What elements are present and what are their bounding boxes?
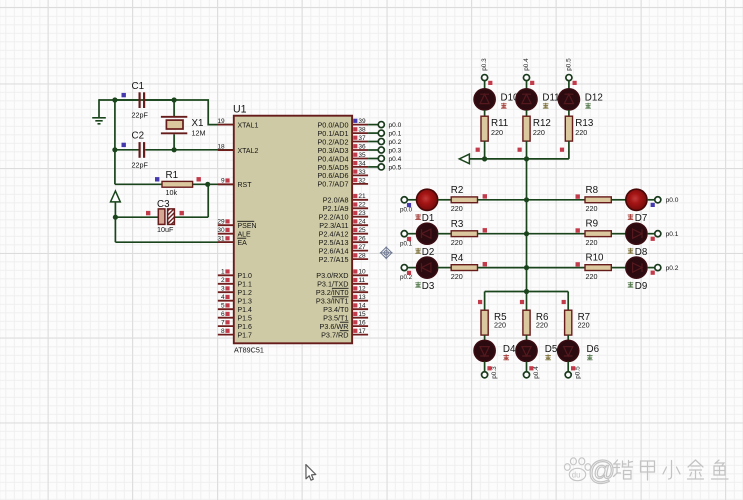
svg-text:5: 5 bbox=[221, 303, 225, 310]
marker terminal D2 bbox=[407, 237, 411, 241]
marker C1 (blue) bbox=[122, 93, 126, 97]
wire bottom distribution bbox=[485, 291, 569, 293]
svg-text:p0.3: p0.3 bbox=[389, 147, 402, 154]
svg-text:@: @ bbox=[588, 456, 615, 486]
svg-text:18: 18 bbox=[217, 144, 225, 151]
terminal p0.2 at U1 bbox=[368, 138, 402, 145]
terminal p0.0 left bbox=[400, 197, 413, 214]
pin 25 P2.4/A12 bbox=[319, 227, 368, 238]
svg-text:p0.3: p0.3 bbox=[481, 58, 488, 71]
wire D7 to terminal bbox=[647, 199, 655, 201]
terminal p0.5 top bbox=[565, 58, 572, 81]
svg-text:37: 37 bbox=[358, 135, 366, 142]
marker terminal D4 bbox=[487, 366, 491, 370]
resistor R2 bbox=[451, 185, 478, 213]
wire terminal to D2 bbox=[407, 233, 416, 235]
terminal p0.0 at U1 bbox=[368, 122, 402, 129]
wire central bus vertical bbox=[526, 159, 528, 292]
pin 12 P3.2/INT0 bbox=[316, 286, 368, 297]
svg-text:32: 32 bbox=[358, 177, 366, 184]
wire R6 to D5 bbox=[526, 335, 528, 340]
pin 7 P1.6 bbox=[218, 320, 252, 331]
resistor R3 bbox=[451, 219, 478, 247]
svg-text:10k: 10k bbox=[166, 188, 178, 197]
ground bbox=[92, 99, 106, 124]
svg-text:D6: D6 bbox=[587, 344, 600, 355]
wire gnd top rail to XTAL1 bbox=[99, 100, 234, 125]
pin 14 P3.4/T0 bbox=[323, 303, 368, 314]
svg-text:P1.4: P1.4 bbox=[238, 307, 253, 314]
pin 3 P1.2 bbox=[218, 286, 252, 297]
svg-text:14: 14 bbox=[358, 303, 366, 310]
marker R2 bbox=[483, 194, 487, 198]
marker R5 bbox=[478, 300, 482, 304]
svg-text:p0.4: p0.4 bbox=[389, 156, 402, 163]
svg-text:27: 27 bbox=[358, 244, 366, 251]
svg-text:P1.0: P1.0 bbox=[238, 273, 253, 280]
resistor R13 bbox=[565, 116, 594, 141]
svg-text:P1.7: P1.7 bbox=[238, 332, 253, 339]
terminal p0.5 bottom bbox=[565, 366, 581, 379]
svg-text:D9: D9 bbox=[635, 281, 648, 292]
pin 16 P3.6/WR bbox=[319, 320, 368, 331]
svg-text:2: 2 bbox=[221, 277, 225, 284]
svg-text:10: 10 bbox=[358, 269, 366, 276]
marker R8 bbox=[576, 194, 580, 198]
svg-text:p0.1: p0.1 bbox=[389, 131, 402, 138]
terminal p0.4 top bbox=[523, 58, 530, 81]
marker R13 bbox=[560, 148, 564, 152]
LED D12 bbox=[558, 89, 602, 110]
pin 24 P2.3/A11 bbox=[319, 219, 368, 230]
terminal p0.4 at U1 bbox=[368, 155, 402, 162]
resistor R10 bbox=[585, 253, 611, 281]
node bus junction row 1 bbox=[524, 197, 529, 202]
node junction C3 left bbox=[113, 215, 118, 220]
svg-text:24: 24 bbox=[358, 219, 366, 226]
svg-text:C1: C1 bbox=[132, 81, 145, 92]
pin 10 P3.0/RXD bbox=[316, 269, 368, 280]
svg-text:AT89C51: AT89C51 bbox=[234, 345, 264, 354]
svg-text:D3: D3 bbox=[422, 281, 435, 292]
wire C3 to RST junction bbox=[207, 184, 209, 217]
pin 32 P0.7/AD7 bbox=[317, 177, 368, 188]
resistor R6 bbox=[523, 310, 549, 335]
svg-text:p0.5: p0.5 bbox=[575, 366, 582, 379]
svg-text:25: 25 bbox=[358, 227, 366, 234]
wire terminal to D12 bbox=[568, 81, 570, 89]
wire bus to R9 bbox=[527, 233, 586, 235]
svg-text:12: 12 bbox=[358, 286, 366, 293]
pin 22 P2.1/A9 bbox=[323, 202, 368, 213]
terminal p0.3 bottom bbox=[482, 366, 498, 379]
pin 17 P3.7/RD bbox=[321, 328, 368, 339]
terminal p0.2 left bbox=[400, 265, 413, 282]
wire R9 to D8 bbox=[611, 233, 625, 235]
capacitor C2 bbox=[115, 131, 174, 170]
node junction C2 right / X1 bottom bbox=[172, 147, 177, 152]
pin 34 P0.5/AD5 bbox=[317, 160, 368, 172]
LED D11 bbox=[516, 89, 560, 110]
svg-text:D4: D4 bbox=[503, 344, 516, 355]
terminal p0.1 right bbox=[655, 231, 679, 238]
svg-text:15: 15 bbox=[358, 311, 366, 318]
svg-text:13: 13 bbox=[358, 294, 366, 301]
svg-text:R1: R1 bbox=[166, 170, 179, 181]
svg-text:R2: R2 bbox=[451, 185, 464, 196]
terminal p0.3 top bbox=[481, 58, 488, 81]
svg-text:D11: D11 bbox=[542, 92, 559, 103]
svg-text:26: 26 bbox=[358, 236, 366, 243]
svg-text:29: 29 bbox=[217, 219, 225, 226]
wire D8 to terminal bbox=[647, 233, 655, 235]
wire R8 to D7 bbox=[611, 199, 625, 201]
marker R1 right bbox=[197, 177, 201, 181]
svg-text:4: 4 bbox=[221, 294, 225, 301]
svg-text:35: 35 bbox=[358, 152, 366, 159]
svg-text:C2: C2 bbox=[132, 131, 145, 142]
svg-text:23: 23 bbox=[358, 210, 366, 217]
svg-text:220: 220 bbox=[586, 272, 598, 281]
marker terminal D11 bbox=[530, 81, 534, 85]
svg-text:22pF: 22pF bbox=[132, 111, 149, 120]
svg-text:P1.6: P1.6 bbox=[238, 324, 253, 331]
wire R3 to bus bbox=[478, 233, 527, 235]
wire bus to R10 bbox=[527, 267, 586, 269]
pin 31 EA bbox=[217, 236, 247, 247]
wire bus to R8 bbox=[527, 199, 586, 201]
capacitor C1 bbox=[115, 81, 174, 120]
svg-text:p0.2: p0.2 bbox=[666, 265, 679, 272]
wire terminal to D1 bbox=[407, 199, 416, 201]
pin 4 P1.3 bbox=[218, 294, 252, 305]
svg-text:220: 220 bbox=[586, 204, 598, 213]
svg-text:P3.7/RD: P3.7/RD bbox=[321, 330, 348, 339]
marker R6 bbox=[520, 300, 524, 304]
marker terminal D1 (blue) bbox=[407, 203, 411, 207]
marker R4 bbox=[483, 262, 487, 266]
marker terminal D10 bbox=[488, 81, 492, 85]
wire terminal to D3 bbox=[407, 267, 416, 269]
pin 38 P0.1/AD1 bbox=[317, 127, 368, 138]
svg-text:D12: D12 bbox=[585, 92, 603, 103]
pin 21 P2.0/A8 bbox=[323, 193, 368, 204]
marker R7 bbox=[562, 300, 566, 304]
svg-text:X1: X1 bbox=[192, 118, 204, 129]
svg-text:30: 30 bbox=[217, 227, 225, 234]
terminal p0.0 right bbox=[655, 197, 679, 204]
wire D6 to terminal bbox=[567, 361, 569, 371]
wire D11 to R12 bbox=[526, 110, 528, 116]
wire R5 to D4 bbox=[484, 335, 486, 340]
pin 35 P0.4/AD4 bbox=[317, 152, 368, 163]
svg-text:36: 36 bbox=[358, 143, 366, 150]
pin 39 P0.0/AD0 bbox=[317, 118, 368, 129]
marker terminal D9 bbox=[651, 271, 655, 275]
svg-text:p0.5: p0.5 bbox=[389, 164, 402, 171]
LED D5 bbox=[516, 340, 558, 361]
node central bus bottom junction bbox=[524, 289, 529, 294]
svg-text:R3: R3 bbox=[451, 219, 464, 230]
LED D10 bbox=[474, 89, 519, 110]
wire left vertical gnd rail bbox=[114, 100, 116, 184]
terminal p0.1 left bbox=[400, 231, 413, 248]
pin 11 P3.1/TXD bbox=[317, 277, 368, 288]
terminal p0.1 at U1 bbox=[368, 130, 402, 137]
op-amp U1 AT89C51 body bbox=[233, 104, 352, 355]
svg-text:PSEN: PSEN bbox=[238, 223, 257, 230]
svg-text:1: 1 bbox=[221, 269, 225, 276]
LED D6 bbox=[558, 340, 600, 361]
svg-text:22: 22 bbox=[358, 202, 366, 209]
crystal X1 bbox=[161, 100, 206, 150]
node junction C2 left bbox=[112, 147, 117, 152]
svg-text:P1.1: P1.1 bbox=[238, 282, 253, 289]
marker R10 bbox=[576, 262, 580, 266]
LED D8 bbox=[626, 223, 648, 258]
wire R4 to bus bbox=[478, 267, 527, 269]
svg-text:XTAL1: XTAL1 bbox=[238, 122, 259, 129]
pin 23 P2.2/A10 bbox=[319, 210, 368, 221]
marker terminal D5 bbox=[529, 366, 533, 370]
pin 8 P1.7 bbox=[218, 328, 252, 339]
pin 30 ALE bbox=[217, 227, 251, 238]
LED D9 bbox=[626, 257, 648, 292]
svg-text:220: 220 bbox=[494, 321, 506, 330]
resistor R5 bbox=[481, 310, 507, 335]
resistor R12 bbox=[523, 116, 551, 141]
LED D2 bbox=[415, 223, 437, 258]
pin 19 XTAL1 bbox=[217, 118, 258, 129]
wire R12 to bus bbox=[526, 141, 528, 159]
svg-text:p0.3: p0.3 bbox=[491, 366, 498, 379]
wire D3 to R4 bbox=[438, 267, 452, 269]
svg-text:P1.2: P1.2 bbox=[238, 290, 253, 297]
svg-text:9: 9 bbox=[221, 178, 225, 185]
watermark paw icon bbox=[564, 458, 590, 481]
pin 29 PSEN bbox=[217, 219, 256, 230]
wire D4 to terminal bbox=[484, 361, 486, 371]
wire D9 to terminal bbox=[647, 267, 655, 269]
wire RST bbox=[193, 183, 234, 185]
marker C2 (blue) bbox=[122, 143, 126, 147]
svg-text:p0.5: p0.5 bbox=[565, 58, 572, 71]
wire R11 to bus bbox=[484, 141, 486, 159]
svg-text:D5: D5 bbox=[545, 344, 558, 355]
svg-text:10uF: 10uF bbox=[157, 225, 174, 234]
svg-text:P0.7/AD7: P0.7/AD7 bbox=[317, 180, 348, 189]
LED D4 bbox=[474, 340, 516, 361]
marker R3 bbox=[483, 228, 487, 232]
pin 6 P1.5 bbox=[218, 311, 252, 322]
wire D5 to terminal bbox=[526, 361, 528, 371]
svg-text:EA: EA bbox=[238, 240, 248, 247]
pin 18 XTAL2 bbox=[217, 144, 258, 155]
marker C3 left bbox=[146, 211, 150, 215]
marker C3 right bbox=[180, 211, 184, 215]
svg-text:220: 220 bbox=[533, 128, 545, 137]
svg-text:220: 220 bbox=[536, 321, 548, 330]
node junction C1 right / X1 top bbox=[172, 97, 177, 102]
svg-text:R10: R10 bbox=[586, 253, 605, 264]
svg-text:du: du bbox=[572, 471, 581, 480]
wire R2 to bus bbox=[478, 199, 527, 201]
terminal p0.4 bottom bbox=[523, 366, 539, 379]
svg-text:28: 28 bbox=[358, 253, 366, 260]
svg-text:P2.7/A15: P2.7/A15 bbox=[319, 255, 349, 264]
LED D1 (lit red) bbox=[415, 189, 437, 224]
pin 37 P0.2/AD2 bbox=[317, 135, 368, 146]
marker R12 bbox=[518, 148, 522, 152]
marker R9 bbox=[576, 228, 580, 232]
wire D2 to R3 bbox=[438, 233, 452, 235]
svg-text:P1.5: P1.5 bbox=[238, 316, 253, 323]
terminal p0.3 at U1 bbox=[368, 147, 402, 154]
origin marker diamond bbox=[380, 246, 393, 259]
wire bus to R7 bbox=[567, 292, 569, 311]
svg-text:R8: R8 bbox=[586, 185, 599, 196]
marker R1 left (blue) bbox=[155, 177, 159, 181]
resistor R8 bbox=[585, 185, 611, 213]
node junction C1 left bbox=[112, 97, 117, 102]
pin 2 P1.1 bbox=[218, 277, 252, 288]
wire top bus bbox=[469, 158, 569, 160]
svg-text:p0.2: p0.2 bbox=[400, 274, 413, 281]
wire bus to R5 bbox=[484, 292, 486, 311]
marker terminal D6 bbox=[571, 366, 575, 370]
watermark text bbox=[588, 456, 728, 486]
svg-text:11: 11 bbox=[358, 277, 365, 284]
svg-text:34: 34 bbox=[358, 160, 366, 167]
svg-text:19: 19 bbox=[217, 118, 225, 125]
svg-text:16: 16 bbox=[358, 320, 366, 327]
pin 15 P3.5/T1 bbox=[323, 311, 368, 322]
marker R11 bbox=[476, 148, 480, 152]
svg-text:p0.0: p0.0 bbox=[389, 122, 402, 129]
svg-text:220: 220 bbox=[491, 128, 503, 137]
svg-text:31: 31 bbox=[217, 236, 225, 243]
svg-text:7: 7 bbox=[221, 320, 225, 327]
pin 28 P2.7/A15 bbox=[319, 253, 368, 264]
pin 36 P0.3/AD3 bbox=[317, 143, 368, 154]
wire power rail down bbox=[114, 202, 116, 242]
capacitor C3 (10uF electrolytic) bbox=[115, 199, 208, 234]
marker terminal D12 bbox=[573, 81, 577, 85]
svg-text:220: 220 bbox=[451, 204, 463, 213]
pin 33 P0.6/AD6 bbox=[317, 169, 368, 180]
wire D12 to R13 bbox=[568, 110, 570, 116]
marker terminal D7 (blue) bbox=[651, 203, 655, 207]
svg-text:220: 220 bbox=[451, 238, 463, 247]
svg-text:R9: R9 bbox=[586, 219, 599, 230]
pin 27 P2.6/A14 bbox=[319, 244, 368, 255]
svg-text:220: 220 bbox=[578, 321, 590, 330]
svg-text:RST: RST bbox=[238, 182, 253, 189]
svg-text:12M: 12M bbox=[192, 129, 206, 138]
node top bus junction 2 bbox=[524, 156, 529, 161]
resistor R1 bbox=[115, 170, 193, 197]
svg-text:p0.1: p0.1 bbox=[400, 240, 413, 247]
resistor R9 bbox=[585, 219, 611, 247]
terminal p0.2 right bbox=[655, 265, 679, 272]
pin 5 P1.4 bbox=[218, 303, 252, 314]
wire XTAL2 bbox=[174, 149, 234, 151]
svg-text:3: 3 bbox=[221, 286, 225, 293]
svg-text:220: 220 bbox=[586, 238, 598, 247]
marker terminal D3 bbox=[407, 271, 411, 275]
svg-text:33: 33 bbox=[358, 169, 366, 176]
LED D3 bbox=[415, 257, 437, 292]
pin 9 RST bbox=[218, 178, 252, 189]
wire bus to R6 bbox=[526, 292, 528, 311]
svg-text:p0.0: p0.0 bbox=[400, 206, 413, 213]
svg-text:6: 6 bbox=[221, 311, 225, 318]
mouse cursor bbox=[306, 465, 316, 481]
node bus junction row 2 bbox=[524, 231, 529, 236]
node junction RST bbox=[205, 182, 210, 187]
svg-text:R4: R4 bbox=[451, 253, 464, 264]
pin 13 P3.3/INT1 bbox=[316, 294, 368, 305]
svg-text:p0.2: p0.2 bbox=[389, 139, 402, 146]
svg-text:39: 39 bbox=[358, 118, 366, 125]
pin 1 P1.0 bbox=[218, 269, 252, 280]
node top bus junction 1 bbox=[482, 156, 487, 161]
wire R7 to D6 bbox=[567, 335, 569, 340]
wire EA bbox=[115, 241, 233, 243]
svg-text:220: 220 bbox=[451, 272, 463, 281]
LED D7 (lit red) bbox=[626, 189, 648, 224]
power terminal (left arrow) top bus bbox=[459, 154, 469, 164]
svg-text:p0.0: p0.0 bbox=[666, 197, 679, 204]
resistor R7 bbox=[565, 310, 591, 335]
svg-text:p0.1: p0.1 bbox=[666, 231, 679, 238]
svg-text:220: 220 bbox=[575, 128, 587, 137]
svg-text:P1.3: P1.3 bbox=[238, 299, 253, 306]
svg-text:21: 21 bbox=[358, 193, 366, 200]
wire D10 to R11 bbox=[484, 110, 486, 116]
wire terminal to D10 bbox=[484, 81, 486, 89]
svg-text:p0.4: p0.4 bbox=[523, 58, 530, 71]
svg-text:C3: C3 bbox=[157, 199, 170, 210]
wire D1 to R2 bbox=[438, 199, 452, 201]
svg-text:8: 8 bbox=[221, 328, 225, 335]
resistor R4 bbox=[451, 253, 478, 281]
wire R10 to D9 bbox=[611, 267, 625, 269]
svg-text:38: 38 bbox=[358, 127, 366, 134]
svg-text:XTAL2: XTAL2 bbox=[238, 148, 259, 155]
node bus junction row 3 bbox=[524, 265, 529, 270]
resistor R11 bbox=[481, 116, 508, 141]
svg-text:17: 17 bbox=[358, 328, 366, 335]
terminal p0.5 at U1 bbox=[368, 164, 402, 171]
svg-text:U1: U1 bbox=[233, 104, 247, 116]
svg-text:p0.4: p0.4 bbox=[533, 366, 540, 379]
pin 26 P2.5/A13 bbox=[319, 236, 368, 247]
svg-text:ALE: ALE bbox=[238, 232, 252, 239]
wire terminal to D11 bbox=[526, 81, 528, 89]
power terminal (up arrow) bbox=[111, 191, 121, 202]
wire R13 to bus bbox=[568, 141, 570, 159]
marker terminal D8 bbox=[651, 237, 655, 241]
svg-text:22pF: 22pF bbox=[132, 160, 149, 169]
